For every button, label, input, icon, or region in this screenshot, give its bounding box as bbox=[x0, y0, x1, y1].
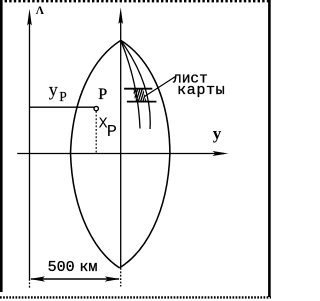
svg-text:Λ: Λ bbox=[36, 5, 45, 17]
meridian fan line B bbox=[121, 40, 150, 129]
svg-text:500: 500 bbox=[48, 259, 75, 276]
upper parallel of map sheet bbox=[124, 88, 152, 90]
point P marker (small circle) bbox=[94, 106, 98, 110]
lower parallel of map sheet bbox=[127, 101, 156, 103]
dimension arrow 500 km (double-headed) bbox=[30, 276, 120, 281]
svg-text:км: км bbox=[79, 259, 97, 276]
central meridian (axial meridian of the zone, vertical arrow) bbox=[118, 7, 123, 286]
zone boundary left meridian (lens left edge) bbox=[71, 40, 121, 268]
svg-text:у: у bbox=[213, 124, 222, 143]
map sheet (hatched trapezoid) bbox=[129, 86, 155, 104]
Y axis (horizontal axis with arrow) bbox=[17, 151, 228, 156]
svg-text:Р: Р bbox=[107, 123, 117, 142]
leader line to map sheet bbox=[145, 77, 176, 97]
abscissa line xP (dashed vertical from P to Y axis) bbox=[95, 111, 97, 154]
zone boundary right meridian (lens right edge) bbox=[120, 40, 170, 268]
ordinate line yP (horizontal from X axis to point P) bbox=[30, 106, 95, 108]
svg-text:Р: Р bbox=[59, 89, 67, 104]
svg-text:P: P bbox=[98, 86, 107, 103]
svg-text:карты: карты bbox=[177, 81, 225, 99]
svg-text:у: у bbox=[49, 80, 58, 100]
meridian fan line A bbox=[121, 40, 140, 128]
X axis (left vertical axis with arrow) bbox=[27, 9, 32, 288]
